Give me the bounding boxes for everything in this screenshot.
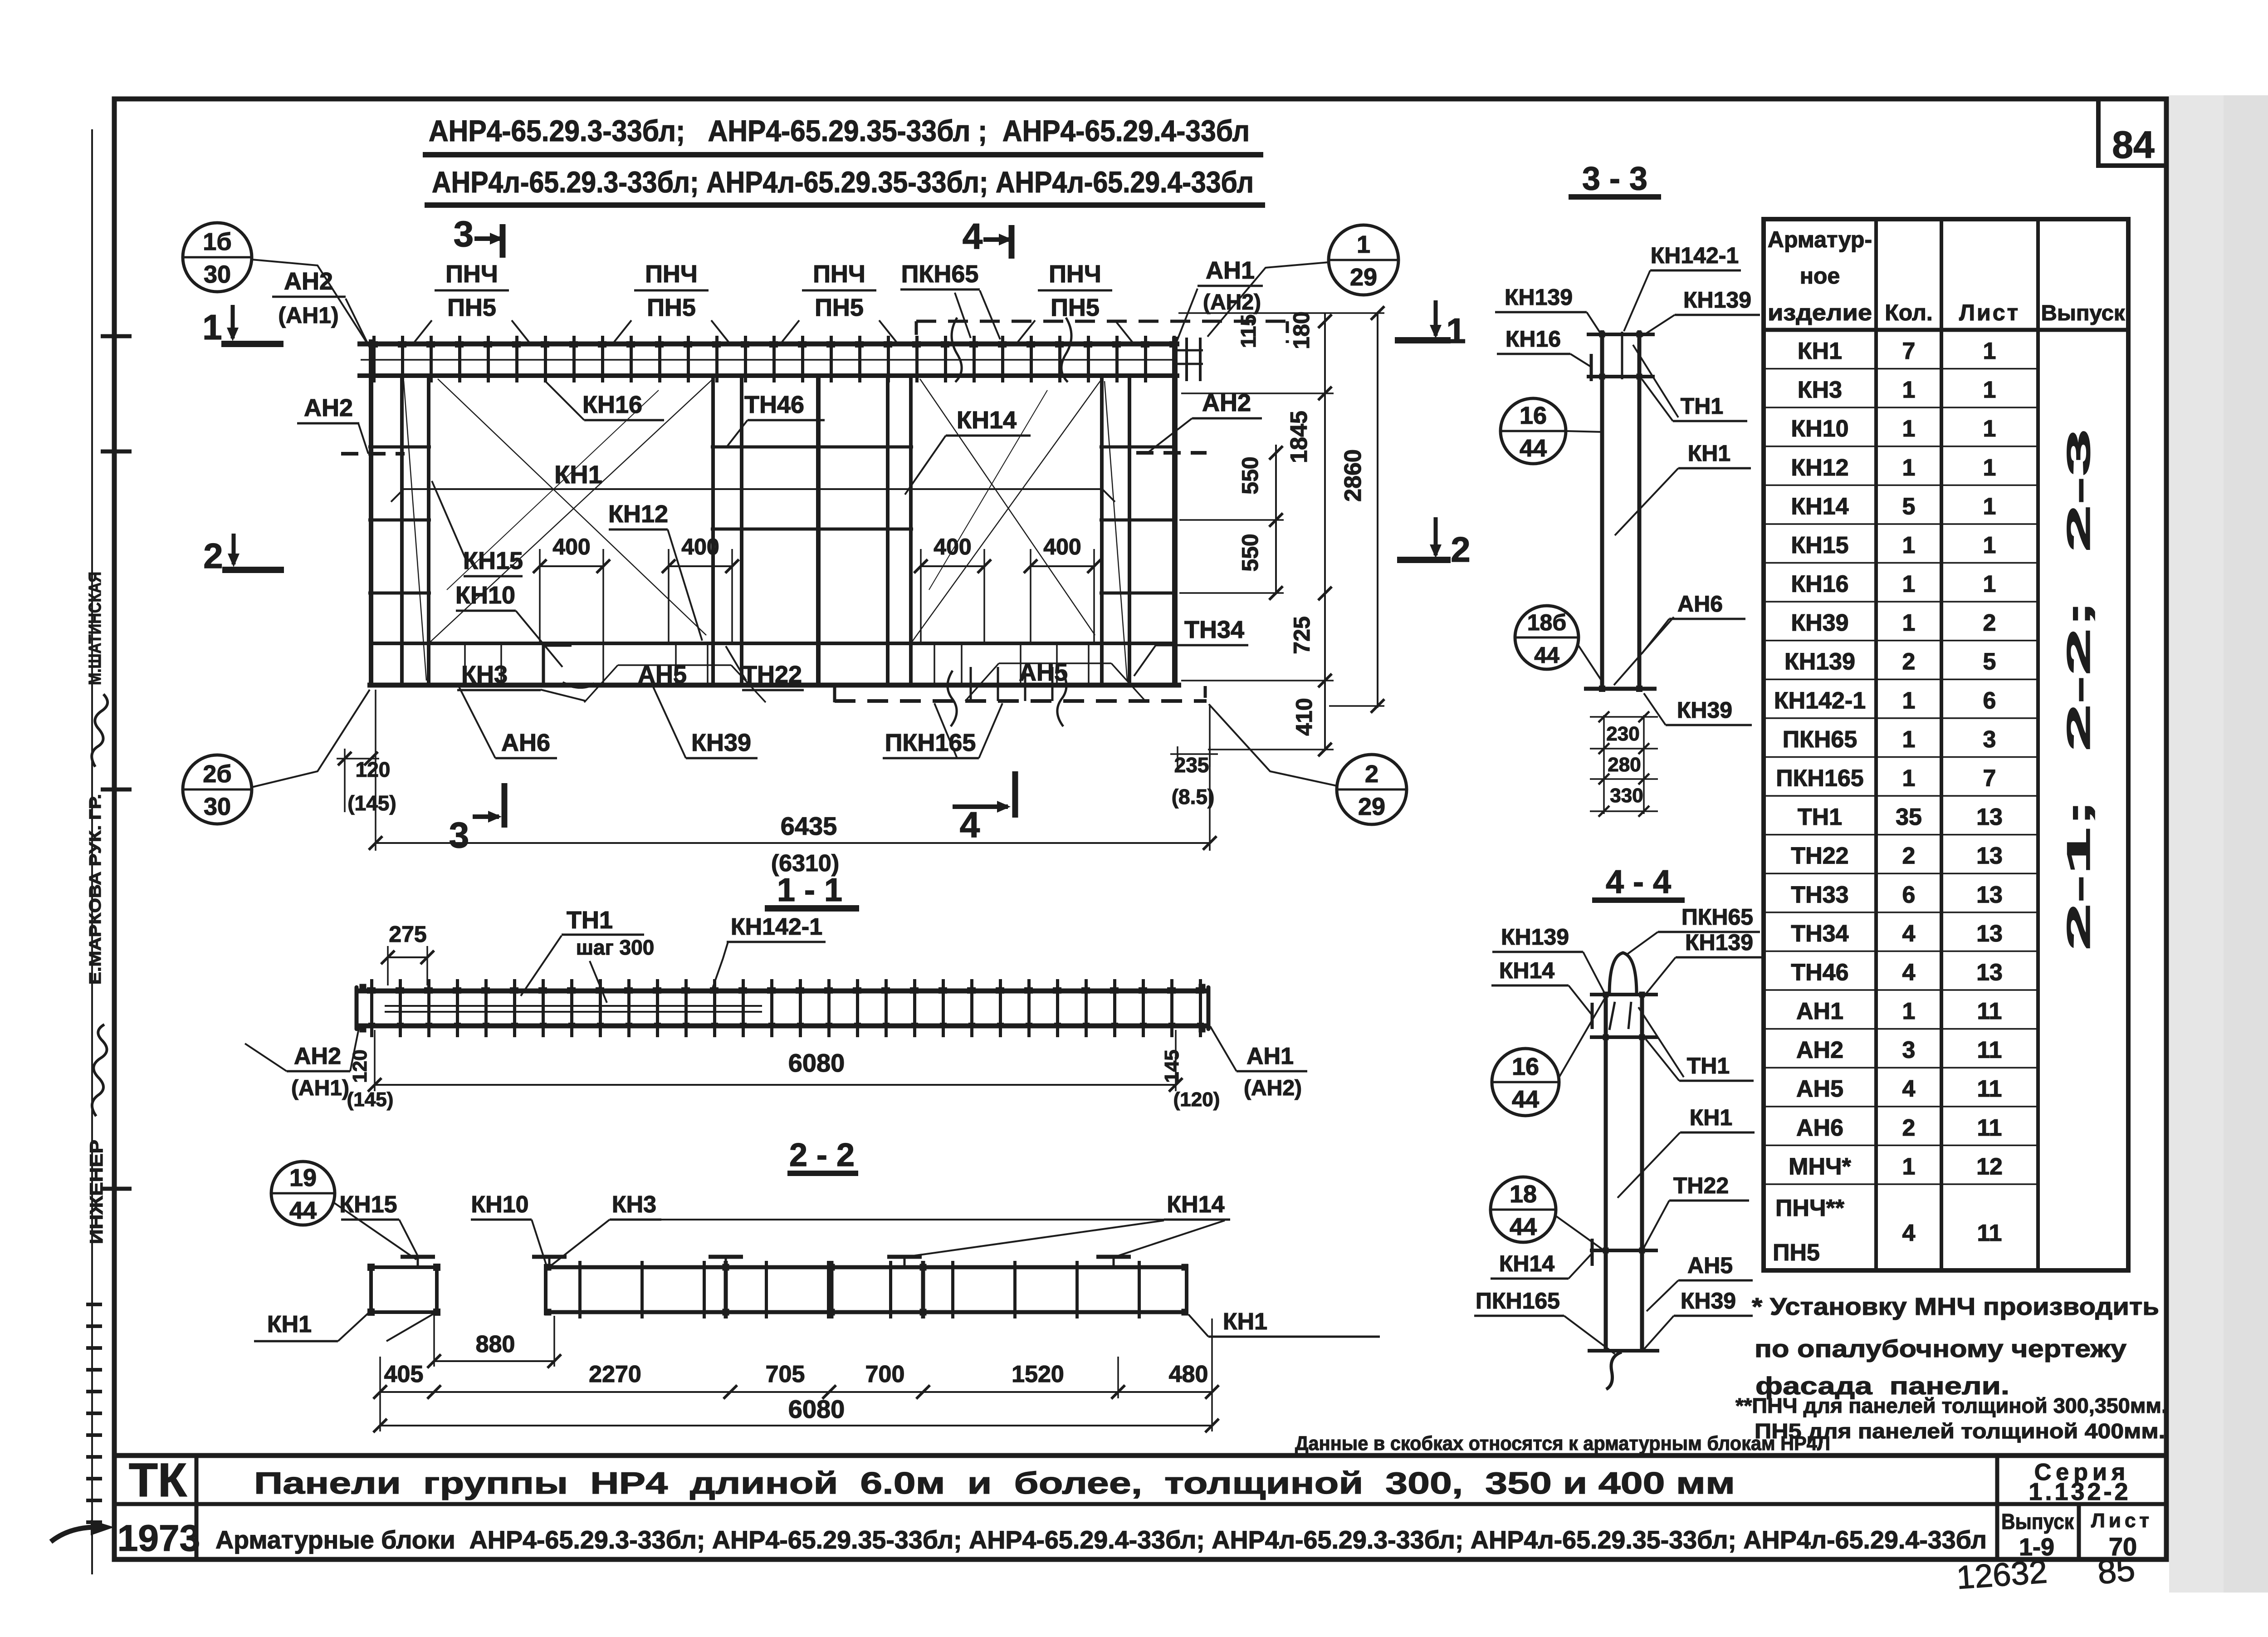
- svg-text:КН1: КН1: [1690, 1105, 1732, 1130]
- svg-text:КН15: КН15: [339, 1191, 397, 1218]
- svg-text:ТН1: ТН1: [567, 907, 613, 934]
- svg-text:АН5: АН5: [1687, 1253, 1733, 1278]
- svg-text:1: 1: [1902, 455, 1916, 481]
- svg-text:КН142-1: КН142-1: [1651, 243, 1739, 268]
- svg-text:1б: 1б: [203, 228, 231, 255]
- svg-text:2: 2: [1365, 760, 1378, 788]
- svg-text:18: 18: [1510, 1181, 1537, 1208]
- svg-text:44: 44: [1534, 642, 1559, 668]
- svg-text:4 - 4: 4 - 4: [1606, 864, 1671, 900]
- svg-text:280: 280: [1608, 754, 1641, 776]
- svg-text:1 - 1: 1 - 1: [777, 872, 842, 908]
- svg-text:М.ШАТИНСКАЯ: М.ШАТИНСКАЯ: [86, 572, 105, 685]
- svg-text:(АН2): (АН2): [1244, 1076, 1302, 1100]
- svg-text:ТН34: ТН34: [1791, 921, 1848, 947]
- svg-text:1: 1: [1983, 571, 1996, 598]
- svg-text:КН142-1: КН142-1: [731, 914, 822, 940]
- svg-text:ТН22: ТН22: [742, 661, 802, 688]
- svg-text:КН14: КН14: [1791, 493, 1848, 520]
- svg-text:12632: 12632: [1955, 1554, 2048, 1596]
- svg-text:120: 120: [356, 758, 391, 781]
- svg-text:ТН1: ТН1: [1681, 393, 1723, 419]
- svg-text:13: 13: [1976, 843, 2003, 869]
- svg-text:АНР4-65.29.3-33бл; АНР4-65.2: АНР4-65.29.3-33бл; АНР4-65.29.35-33бл ; …: [429, 114, 1250, 147]
- svg-text:КН3: КН3: [1798, 377, 1842, 403]
- svg-text:1: 1: [1983, 493, 1996, 520]
- svg-text:13: 13: [1976, 921, 2003, 947]
- svg-text:1: 1: [1983, 377, 1996, 403]
- svg-text:ПН5: ПН5: [647, 294, 696, 321]
- svg-text:КН139: КН139: [1501, 924, 1569, 950]
- svg-text:ПКН165: ПКН165: [1776, 765, 1863, 792]
- svg-text:ПКН65: ПКН65: [1681, 904, 1753, 930]
- svg-text:115: 115: [1237, 314, 1260, 348]
- svg-text:КН10: КН10: [1791, 416, 1848, 442]
- svg-text:АН1: АН1: [1246, 1043, 1294, 1069]
- svg-text:Арматур-: Арматур-: [1768, 227, 1872, 252]
- svg-text:МНЧ*: МНЧ*: [1789, 1153, 1851, 1180]
- svg-text:1: 1: [1983, 416, 1996, 442]
- svg-text:КН16: КН16: [1791, 571, 1848, 598]
- svg-text:2 - 2: 2 - 2: [789, 1137, 855, 1173]
- svg-text:ТН46: ТН46: [1791, 959, 1848, 985]
- svg-text:1: 1: [1983, 338, 1996, 364]
- svg-text:КН39: КН39: [1681, 1288, 1736, 1314]
- svg-text:4: 4: [963, 216, 983, 256]
- svg-text:1: 1: [1902, 416, 1916, 442]
- svg-text:1: 1: [1357, 231, 1370, 258]
- svg-text:ПН5: ПН5: [447, 294, 496, 321]
- svg-text:400: 400: [934, 534, 971, 559]
- svg-text:480: 480: [1169, 1361, 1208, 1387]
- svg-text:1: 1: [202, 307, 222, 347]
- svg-text:ТН34: ТН34: [1184, 616, 1244, 643]
- svg-text:330: 330: [1610, 784, 1643, 807]
- svg-text:3: 3: [449, 815, 469, 855]
- svg-text:400: 400: [552, 534, 590, 559]
- svg-text:275: 275: [389, 921, 426, 947]
- svg-text:КН10: КН10: [455, 582, 515, 609]
- svg-text:3 - 3: 3 - 3: [1582, 161, 1647, 197]
- svg-text:5: 5: [1983, 649, 1996, 675]
- svg-text:ТН1: ТН1: [1798, 804, 1842, 830]
- svg-text:КН3: КН3: [612, 1191, 656, 1218]
- svg-text:120: 120: [349, 1049, 371, 1083]
- svg-text:700: 700: [865, 1361, 905, 1387]
- svg-text:705: 705: [766, 1361, 805, 1387]
- svg-text:(145): (145): [347, 791, 396, 815]
- svg-text:ПКН65: ПКН65: [901, 260, 979, 288]
- svg-text:1: 1: [1446, 311, 1466, 351]
- svg-text:85: 85: [2096, 1550, 2137, 1591]
- svg-text:(145): (145): [347, 1088, 394, 1111]
- svg-text:13: 13: [1976, 959, 2003, 985]
- svg-text:29: 29: [1358, 793, 1385, 820]
- svg-text:АНР4л-65.29.3-33бл; АНР4л-65.2: АНР4л-65.29.3-33бл; АНР4л-65.29.35-33бл;…: [432, 165, 1254, 199]
- svg-text:880: 880: [476, 1331, 515, 1358]
- svg-text:(АН1): (АН1): [291, 1076, 349, 1100]
- svg-text:АН1: АН1: [1206, 257, 1255, 284]
- svg-text:12: 12: [1976, 1153, 2003, 1180]
- svg-text:ПНЧ: ПНЧ: [1049, 260, 1101, 288]
- svg-text:2: 2: [1902, 649, 1916, 675]
- svg-text:405: 405: [384, 1361, 424, 1387]
- svg-text:КН14: КН14: [1499, 1251, 1554, 1276]
- svg-text:1: 1: [1902, 687, 1916, 714]
- svg-text:КН15: КН15: [463, 547, 523, 574]
- svg-text:КН12: КН12: [1791, 455, 1848, 481]
- svg-text:АН2: АН2: [294, 1043, 341, 1069]
- svg-text:АН1: АН1: [1796, 998, 1843, 1024]
- svg-text:4: 4: [1902, 959, 1916, 985]
- svg-text:КН16: КН16: [1505, 326, 1561, 352]
- svg-text:ПКН165: ПКН165: [1476, 1288, 1560, 1314]
- svg-text:2: 2: [1902, 843, 1916, 869]
- svg-text:3: 3: [454, 214, 474, 254]
- svg-text:АН2: АН2: [1796, 1037, 1843, 1064]
- svg-text:2270: 2270: [589, 1361, 641, 1387]
- svg-text:16: 16: [1512, 1053, 1539, 1080]
- svg-text:(АН1): (АН1): [278, 303, 338, 328]
- svg-text:6: 6: [1902, 882, 1916, 908]
- svg-text:изделие: изделие: [1768, 300, 1872, 325]
- svg-text:30: 30: [204, 261, 231, 288]
- svg-text:АН6: АН6: [501, 729, 550, 756]
- svg-text:ПНЧ**: ПНЧ**: [1775, 1195, 1845, 1221]
- svg-text:2б: 2б: [203, 760, 231, 788]
- svg-text:**ПНЧ для панелей толщиной 300: **ПНЧ для панелей толщиной 300,350мм.: [1735, 1394, 2167, 1417]
- svg-text:Выпуск: Выпуск: [2001, 1510, 2074, 1534]
- svg-text:ПКН165: ПКН165: [885, 729, 976, 756]
- svg-text:11: 11: [1977, 1037, 2002, 1064]
- svg-text:725: 725: [1289, 616, 1315, 654]
- svg-text:КН39: КН39: [691, 729, 751, 756]
- svg-text:КН139: КН139: [1505, 284, 1573, 310]
- svg-text:Е.МАРКОВА РУК. ГР.: Е.МАРКОВА РУК. ГР.: [86, 794, 104, 985]
- svg-text:Данные в скобках относятся к а: Данные в скобках относятся к арматурным …: [1295, 1432, 1830, 1455]
- svg-text:КН1: КН1: [1798, 338, 1842, 364]
- svg-text:АН5: АН5: [1796, 1076, 1843, 1102]
- svg-text:30: 30: [204, 793, 231, 820]
- svg-text:11: 11: [1977, 1076, 2002, 1102]
- svg-text:2: 2: [1983, 610, 1996, 636]
- svg-text:1845: 1845: [1286, 411, 1312, 463]
- svg-text:11: 11: [1977, 1115, 2002, 1141]
- svg-text:ное: ное: [1800, 263, 1840, 289]
- svg-text:1.132-2: 1.132-2: [2028, 1478, 2131, 1505]
- svg-text:1: 1: [1983, 532, 1996, 559]
- svg-text:3: 3: [1983, 726, 1996, 753]
- svg-text:2-1; 2-2; 2-3: 2-1; 2-2; 2-3: [2061, 429, 2097, 951]
- svg-text:6435: 6435: [781, 812, 837, 840]
- svg-text:ТН33: ТН33: [1791, 882, 1848, 908]
- svg-text:6080: 6080: [788, 1049, 845, 1077]
- svg-text:шаг 300: шаг 300: [576, 936, 655, 959]
- svg-text:1: 1: [1902, 571, 1916, 598]
- svg-text:35: 35: [1896, 804, 1922, 830]
- svg-text:400: 400: [681, 534, 719, 559]
- svg-text:1: 1: [1983, 455, 1996, 481]
- svg-text:КН1: КН1: [1688, 441, 1730, 466]
- svg-text:(120): (120): [1173, 1088, 1220, 1111]
- svg-text:1520: 1520: [1012, 1361, 1064, 1387]
- svg-text:550: 550: [1237, 534, 1263, 571]
- svg-text:2: 2: [1451, 529, 1470, 569]
- svg-text:ПНЧ: ПНЧ: [813, 260, 865, 288]
- svg-text:13: 13: [1976, 804, 2003, 830]
- svg-text:1: 1: [1902, 1153, 1916, 1180]
- svg-text:4: 4: [1902, 1220, 1916, 1246]
- svg-text:КН15: КН15: [1791, 532, 1848, 559]
- svg-text:44: 44: [1512, 1086, 1539, 1113]
- svg-text:3: 3: [1902, 1037, 1916, 1064]
- svg-text:по опалубочному чертежу: по опалубочному чертежу: [1755, 1335, 2126, 1363]
- svg-text:1: 1: [1902, 532, 1916, 559]
- svg-text:Лист: Лист: [1959, 300, 2020, 325]
- svg-text:1973: 1973: [117, 1518, 200, 1559]
- svg-text:29: 29: [1350, 264, 1377, 291]
- svg-text:КН14: КН14: [957, 407, 1017, 434]
- svg-text:6: 6: [1983, 687, 1996, 714]
- svg-text:КН1: КН1: [1223, 1309, 1267, 1335]
- svg-text:ТН22: ТН22: [1791, 843, 1848, 869]
- svg-text:180: 180: [1289, 311, 1314, 349]
- svg-text:КН39: КН39: [1677, 697, 1732, 723]
- svg-text:4: 4: [1902, 921, 1916, 947]
- svg-text:(АН2): (АН2): [1203, 290, 1261, 314]
- svg-text:АН2: АН2: [304, 394, 353, 422]
- svg-text:КН3: КН3: [461, 661, 508, 688]
- svg-text:5: 5: [1902, 493, 1916, 520]
- svg-text:1: 1: [1902, 726, 1916, 753]
- svg-text:ТК: ТК: [129, 1454, 187, 1507]
- svg-text:550: 550: [1237, 456, 1263, 494]
- svg-text:АН6: АН6: [1677, 591, 1723, 617]
- svg-text:410: 410: [1291, 698, 1317, 735]
- svg-text:Панели группы НР4 длиной 6: Панели группы НР4 длиной 6.0м и более, т…: [254, 1466, 1735, 1500]
- svg-text:230: 230: [1606, 723, 1639, 745]
- svg-text:84: 84: [2112, 123, 2155, 166]
- svg-text:44: 44: [1510, 1213, 1537, 1240]
- svg-text:КН139: КН139: [1784, 649, 1855, 675]
- svg-text:18б: 18б: [1527, 610, 1567, 635]
- svg-text:КН12: КН12: [608, 500, 668, 528]
- svg-text:ТН22: ТН22: [1673, 1173, 1729, 1198]
- svg-text:КН16: КН16: [582, 391, 642, 418]
- svg-text:ПН5: ПН5: [1773, 1240, 1820, 1266]
- svg-text:11: 11: [1977, 998, 2002, 1024]
- svg-text:ТН46: ТН46: [744, 391, 804, 418]
- svg-text:4: 4: [960, 804, 980, 845]
- svg-text:1: 1: [1902, 377, 1916, 403]
- svg-text:КН1: КН1: [554, 460, 602, 489]
- svg-text:7: 7: [1983, 765, 1996, 792]
- svg-text:ИНЖЕНЕР: ИНЖЕНЕР: [87, 1140, 107, 1244]
- svg-text:44: 44: [1520, 435, 1547, 462]
- svg-text:ТН1: ТН1: [1687, 1053, 1730, 1078]
- svg-text:1: 1: [1902, 765, 1916, 792]
- svg-text:1: 1: [1902, 998, 1916, 1024]
- svg-text:19: 19: [289, 1164, 317, 1191]
- svg-text:1: 1: [1902, 610, 1916, 636]
- svg-text:235: 235: [1174, 753, 1209, 777]
- svg-text:Лист: Лист: [2091, 1510, 2153, 1532]
- svg-text:6080: 6080: [788, 1395, 845, 1423]
- svg-text:Арматурные блоки АНР4-65.29.3: Арматурные блоки АНР4-65.29.3-33бл; АНР4…: [215, 1525, 1987, 1554]
- svg-text:ПКН65: ПКН65: [1783, 726, 1857, 753]
- svg-text:16: 16: [1520, 402, 1547, 429]
- svg-text:(8.5): (8.5): [1172, 785, 1215, 809]
- svg-text:11: 11: [1977, 1220, 2002, 1246]
- svg-text:145: 145: [1161, 1049, 1183, 1083]
- svg-text:44: 44: [289, 1197, 317, 1224]
- svg-text:Выпуск: Выпуск: [2041, 301, 2126, 325]
- svg-text:7: 7: [1902, 338, 1916, 364]
- svg-text:КН139: КН139: [1683, 287, 1751, 313]
- svg-text:КН10: КН10: [471, 1191, 528, 1218]
- svg-text:ПНЧ: ПНЧ: [445, 260, 498, 288]
- svg-text:400: 400: [1043, 534, 1081, 559]
- svg-text:КН1: КН1: [267, 1311, 312, 1338]
- svg-text:АН2: АН2: [284, 268, 333, 295]
- svg-text:КН142-1: КН142-1: [1774, 687, 1866, 714]
- svg-text:КН139: КН139: [1685, 930, 1753, 955]
- svg-text:ПНЧ: ПНЧ: [645, 260, 698, 288]
- svg-text:ПН5: ПН5: [1051, 294, 1100, 321]
- svg-text:Кол.: Кол.: [1885, 300, 1932, 325]
- svg-text:* Установку МНЧ производить: * Установку МНЧ производить: [1752, 1293, 2159, 1320]
- svg-text:ПН5: ПН5: [815, 294, 864, 321]
- svg-text:2860: 2860: [1340, 449, 1366, 502]
- svg-text:КН14: КН14: [1167, 1191, 1224, 1218]
- svg-text:АН6: АН6: [1796, 1115, 1843, 1141]
- svg-text:4: 4: [1902, 1076, 1916, 1102]
- svg-text:2: 2: [203, 536, 223, 576]
- svg-text:КН39: КН39: [1791, 610, 1848, 636]
- svg-text:КН14: КН14: [1499, 958, 1554, 983]
- svg-text:2: 2: [1902, 1115, 1916, 1141]
- svg-text:13: 13: [1976, 882, 2003, 908]
